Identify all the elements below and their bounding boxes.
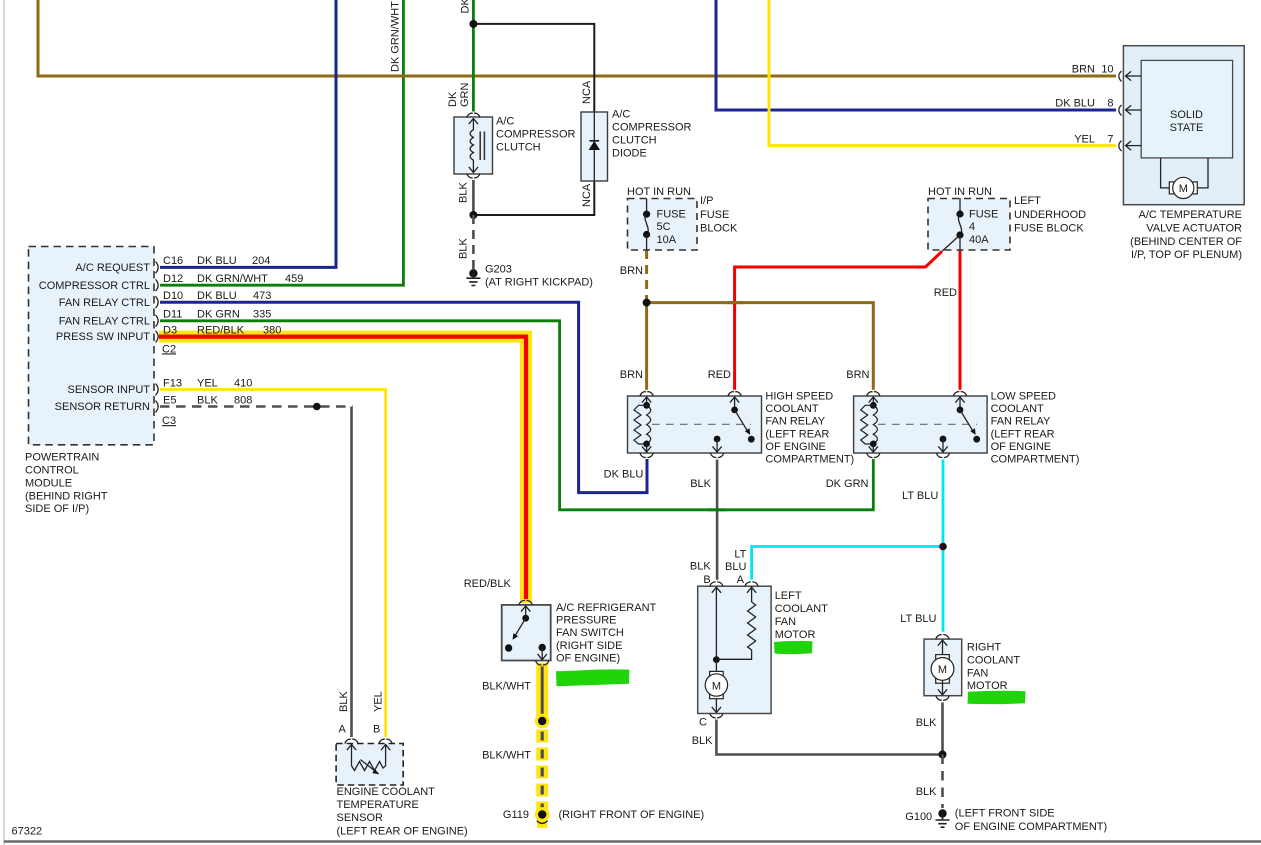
svg-text:HOT IN RUN: HOT IN RUN bbox=[627, 186, 691, 198]
wire RED: fuse 4 to low speed relay switch bbox=[959, 250, 962, 390]
svg-text:LT: LT bbox=[734, 549, 746, 561]
svg-text:CLUTCH: CLUTCH bbox=[496, 142, 541, 154]
svg-text:M: M bbox=[1179, 183, 1188, 195]
svg-text:SIDE OF I/P): SIDE OF I/P) bbox=[25, 503, 89, 515]
wire YEL 410: PCM F13 to ECT sensor pin B bbox=[160, 390, 386, 738]
svg-text:BLK: BLK bbox=[197, 394, 218, 406]
page frame bottom border bbox=[4, 840, 1261, 842]
high speed relay caption bbox=[765, 391, 854, 466]
svg-text:I/P, TOP OF PLENUM): I/P, TOP OF PLENUM) bbox=[1131, 249, 1242, 261]
left fan motor symbol bbox=[715, 660, 717, 673]
svg-text:OF ENGINE): OF ENGINE) bbox=[556, 652, 620, 664]
PCM pin D12 bbox=[156, 273, 304, 291]
svg-text:A/C: A/C bbox=[496, 116, 514, 128]
wire NCA: diode bottom jumper bbox=[473, 181, 594, 215]
highlighted wire BLK/WHT: pressure switch to splice (yellow band) bbox=[536, 663, 548, 721]
svg-text:NCA: NCA bbox=[581, 80, 593, 104]
svg-text:459: 459 bbox=[285, 273, 303, 285]
svg-text:I/P: I/P bbox=[700, 195, 713, 207]
svg-text:(LEFT REAR: (LEFT REAR bbox=[765, 428, 829, 440]
ground G119 highlighted dot bbox=[535, 807, 550, 822]
svg-text:FUSE: FUSE bbox=[657, 209, 686, 221]
I/P fuse block box bbox=[627, 186, 697, 250]
node: splice dot on BLK 808 bbox=[313, 403, 321, 411]
relay switch bbox=[734, 397, 736, 410]
wire DK GRN 335: PCM D11 to low speed relay coil bbox=[160, 321, 873, 510]
wire LT BLU: low speed relay switch down to right fan motor bbox=[942, 460, 945, 632]
node: LT BLU junction dot bbox=[939, 543, 947, 551]
svg-text:BRN: BRN bbox=[846, 369, 869, 381]
relay internal dashed line bbox=[878, 423, 977, 425]
svg-text:G203: G203 bbox=[485, 264, 512, 276]
clutch coil core bars bbox=[479, 132, 481, 161]
svg-text:B: B bbox=[703, 574, 710, 586]
svg-text:YEL: YEL bbox=[373, 691, 385, 712]
svg-text:NCA: NCA bbox=[581, 183, 593, 207]
svg-text:POWERTRAIN: POWERTRAIN bbox=[25, 452, 99, 464]
svg-text:(BEHIND RIGHT: (BEHIND RIGHT bbox=[25, 490, 108, 502]
A/C compressor clutch box bbox=[454, 113, 576, 178]
svg-text:67322: 67322 bbox=[12, 826, 43, 838]
svg-text:BLK: BLK bbox=[458, 182, 470, 203]
svg-text:COOLANT: COOLANT bbox=[967, 655, 1020, 667]
svg-text:SENSOR INPUT: SENSOR INPUT bbox=[67, 384, 150, 396]
PCM pin F13 bbox=[156, 377, 253, 395]
wire DK BLU 473: PCM D10 to high speed relay coil bbox=[160, 302, 647, 492]
svg-text:(RIGHT SIDE: (RIGHT SIDE bbox=[556, 640, 622, 652]
node: junction dot below clutch bbox=[469, 211, 477, 219]
svg-text:LOW SPEED: LOW SPEED bbox=[991, 391, 1056, 403]
svg-text:(BEHIND CENTER OF: (BEHIND CENTER OF bbox=[1130, 236, 1242, 248]
high speed coolant fan relay box bbox=[628, 392, 762, 458]
svg-text:D12: D12 bbox=[163, 273, 183, 285]
wire BLK/WHT solid core bbox=[541, 667, 544, 722]
svg-text:A/C TEMPERATURE: A/C TEMPERATURE bbox=[1139, 209, 1243, 221]
svg-text:RED: RED bbox=[934, 287, 957, 299]
svg-text:STATE: STATE bbox=[1170, 122, 1204, 134]
pressure switch box bbox=[502, 600, 551, 665]
svg-text:BLK: BLK bbox=[916, 786, 937, 798]
ground G100 symbol bbox=[938, 809, 946, 817]
svg-text:(LEFT FRONT SIDE: (LEFT FRONT SIDE bbox=[955, 808, 1055, 820]
relay switch bbox=[959, 397, 961, 410]
svg-text:SOLID: SOLID bbox=[1170, 109, 1203, 121]
page frame left border bbox=[3, 0, 5, 845]
svg-text:(LEFT REAR: (LEFT REAR bbox=[991, 428, 1055, 440]
svg-text:PRESSURE: PRESSURE bbox=[556, 615, 617, 627]
highlighted wire BLK/WHT dashed: splice to G119 bbox=[536, 730, 548, 813]
svg-text:4: 4 bbox=[969, 221, 975, 233]
PCM caption bbox=[25, 452, 108, 516]
svg-text:DK BLU: DK BLU bbox=[1055, 98, 1095, 110]
pin A internal resistor bbox=[751, 587, 753, 602]
svg-text:5C: 5C bbox=[657, 221, 671, 233]
wire DK BLU: vertical from top to actuator pin 8 bbox=[716, 0, 1116, 110]
svg-text:DK BLU: DK BLU bbox=[604, 469, 644, 481]
left underhood fuse block caption bbox=[1014, 195, 1086, 235]
svg-text:VALVE ACTUATOR: VALVE ACTUATOR bbox=[1146, 222, 1242, 234]
svg-text:CLUTCH: CLUTCH bbox=[612, 135, 657, 147]
svg-text:10: 10 bbox=[1101, 64, 1113, 76]
left fan motor caption bbox=[775, 590, 828, 641]
svg-text:LT BLU: LT BLU bbox=[900, 613, 936, 625]
A/C compressor clutch diode box bbox=[581, 109, 692, 182]
svg-text:A/C: A/C bbox=[612, 109, 630, 121]
svg-text:MODULE: MODULE bbox=[25, 477, 72, 489]
label DK GRN rotated above clutch bbox=[447, 83, 471, 108]
svg-text:FAN: FAN bbox=[967, 668, 988, 680]
svg-text:OF ENGINE COMPARTMENT): OF ENGINE COMPARTMENT) bbox=[955, 821, 1107, 833]
svg-text:808: 808 bbox=[234, 394, 252, 406]
relay coil bbox=[872, 397, 874, 406]
svg-text:BRN: BRN bbox=[1072, 64, 1095, 76]
node: BLK/WHT splice dot with highlight ring bbox=[535, 714, 550, 729]
wire BRN dashed: I/P fuse to splice bbox=[645, 250, 648, 303]
svg-text:SENSOR: SENSOR bbox=[337, 812, 384, 824]
wire BRN: battery feed to A/C temperature valve actuator pin 10 bbox=[38, 0, 1116, 76]
svg-text:F13: F13 bbox=[163, 377, 182, 389]
svg-text:LEFT: LEFT bbox=[775, 590, 802, 602]
svg-text:E5: E5 bbox=[163, 394, 176, 406]
svg-text:BLK: BLK bbox=[690, 561, 711, 573]
svg-text:RED/BLK: RED/BLK bbox=[464, 578, 512, 590]
svg-text:380: 380 bbox=[263, 324, 281, 336]
svg-text:COMPARTMENT): COMPARTMENT) bbox=[765, 454, 854, 466]
svg-text:CONTROL: CONTROL bbox=[25, 465, 79, 477]
svg-text:335: 335 bbox=[253, 309, 271, 321]
thermistor zigzag bbox=[352, 762, 386, 771]
fuse 5C 10A symbol bbox=[646, 199, 648, 215]
svg-text:DK BLU: DK BLU bbox=[197, 255, 237, 267]
relay internal dashed line bbox=[652, 423, 751, 425]
wire BLK: left fan motor pin C to ground run bbox=[716, 720, 942, 755]
svg-text:7: 7 bbox=[1107, 134, 1113, 146]
PCM pin D3 bbox=[156, 324, 282, 342]
svg-text:D10: D10 bbox=[163, 290, 183, 302]
svg-text:D11: D11 bbox=[163, 309, 182, 321]
svg-text:OF ENGINE: OF ENGINE bbox=[991, 441, 1052, 453]
svg-text:COOLANT: COOLANT bbox=[991, 403, 1044, 415]
svg-text:BLK/WHT: BLK/WHT bbox=[482, 681, 531, 693]
wire RED/BLK 380 red core bbox=[159, 337, 526, 599]
svg-text:FUSE: FUSE bbox=[700, 209, 729, 221]
wire BLK dashed to G203 bbox=[472, 215, 475, 269]
svg-text:FAN RELAY CTRL: FAN RELAY CTRL bbox=[59, 315, 150, 327]
svg-text:BRN: BRN bbox=[620, 369, 643, 381]
low speed relay caption bbox=[991, 391, 1080, 466]
PCM pin E5 bbox=[156, 394, 253, 412]
svg-text:10A: 10A bbox=[657, 234, 677, 246]
svg-text:COOLANT: COOLANT bbox=[765, 403, 818, 415]
svg-text:DK: DK bbox=[447, 91, 459, 107]
svg-text:DK GRN: DK GRN bbox=[197, 309, 240, 321]
wire BLK dashed to G100 bbox=[941, 755, 944, 809]
svg-text:COMPARTMENT): COMPARTMENT) bbox=[991, 454, 1080, 466]
wire DK GRN/WHT 459: vertical from top to PCM D12 bbox=[160, 0, 403, 285]
actuator pin 7 bbox=[1119, 141, 1122, 152]
wire crossing overdraws bbox=[396, 75, 412, 78]
svg-text:BLK: BLK bbox=[458, 238, 470, 259]
ECT sensor box bbox=[336, 739, 403, 785]
I/P fuse block caption bbox=[700, 195, 738, 235]
svg-text:A/C REQUEST: A/C REQUEST bbox=[75, 262, 150, 274]
diode symbol bbox=[590, 142, 600, 150]
svg-text:BLU: BLU bbox=[725, 561, 746, 573]
svg-text:HOT IN RUN: HOT IN RUN bbox=[928, 186, 992, 198]
svg-text:DIODE: DIODE bbox=[612, 148, 647, 160]
actuator pin 8 bbox=[1119, 105, 1122, 116]
svg-text:RIGHT: RIGHT bbox=[967, 642, 1002, 654]
wire DK BLU 204: PCM C16 up to top of page bbox=[160, 0, 336, 267]
svg-text:DK GRN: DK GRN bbox=[826, 478, 869, 490]
svg-text:MOTOR: MOTOR bbox=[967, 680, 1008, 692]
svg-text:COMPRESSOR: COMPRESSOR bbox=[496, 129, 576, 141]
svg-text:TEMPERATURE: TEMPERATURE bbox=[337, 799, 419, 811]
svg-text:410: 410 bbox=[234, 377, 252, 389]
svg-text:ENGINE COOLANT: ENGINE COOLANT bbox=[337, 786, 436, 798]
ground G119 symbol tail bbox=[537, 821, 547, 829]
svg-text:PRESS SW INPUT: PRESS SW INPUT bbox=[56, 331, 150, 343]
right fan motor caption bbox=[967, 642, 1020, 693]
actuator caption bbox=[1130, 209, 1242, 261]
svg-text:BLK: BLK bbox=[690, 478, 711, 490]
svg-text:C: C bbox=[699, 717, 707, 729]
wire NCA: black jumper from DK GRN node to clutch diode top bbox=[473, 24, 594, 112]
svg-text:OF ENGINE: OF ENGINE bbox=[765, 441, 826, 453]
svg-text:D3: D3 bbox=[163, 324, 177, 336]
svg-text:FAN RELAY: FAN RELAY bbox=[765, 416, 825, 428]
left coolant fan motor box bbox=[698, 582, 771, 718]
wire RED: fuse 4 to high speed relay switch bbox=[735, 252, 942, 390]
relay coil bbox=[646, 397, 648, 406]
svg-text:HIGH SPEED: HIGH SPEED bbox=[765, 391, 833, 403]
svg-text:RED: RED bbox=[708, 369, 731, 381]
fuse 4 40A symbol bbox=[959, 198, 961, 214]
svg-text:C16: C16 bbox=[163, 255, 183, 267]
svg-text:COOLANT: COOLANT bbox=[775, 603, 828, 615]
svg-text:473: 473 bbox=[253, 290, 271, 302]
svg-text:BLOCK: BLOCK bbox=[700, 223, 738, 235]
svg-text:FUSE BLOCK: FUSE BLOCK bbox=[1014, 223, 1084, 235]
ECT sensor caption bbox=[337, 786, 468, 837]
svg-text:YEL: YEL bbox=[197, 377, 218, 389]
svg-text:RED/BLK: RED/BLK bbox=[197, 324, 245, 336]
svg-text:M: M bbox=[938, 664, 947, 676]
svg-text:FAN RELAY CTRL: FAN RELAY CTRL bbox=[59, 297, 150, 309]
svg-text:FAN RELAY: FAN RELAY bbox=[991, 416, 1051, 428]
actuator outer box bbox=[1119, 46, 1244, 205]
svg-text:40A: 40A bbox=[969, 234, 989, 246]
svg-text:FUSE: FUSE bbox=[969, 209, 998, 221]
svg-text:M: M bbox=[712, 680, 721, 692]
svg-text:YEL: YEL bbox=[1074, 134, 1095, 146]
pin B internal bbox=[715, 587, 717, 660]
wire DK GRN: from top to A/C compressor clutch bbox=[472, 0, 475, 112]
actuator motor M bbox=[1161, 158, 1208, 188]
svg-text:8: 8 bbox=[1107, 98, 1113, 110]
highlight marker green by left fan motor bbox=[774, 641, 813, 654]
left underhood fuse block box bbox=[928, 186, 1010, 252]
PCM pin D11 bbox=[156, 309, 272, 327]
svg-text:G100: G100 bbox=[905, 811, 932, 823]
svg-text:BLK: BLK bbox=[338, 691, 350, 712]
node: junction dot on DK GRN wire bbox=[469, 20, 477, 28]
svg-text:204: 204 bbox=[252, 255, 270, 267]
svg-text:DK BLU: DK BLU bbox=[197, 290, 237, 302]
svg-text:COMPRESSOR CTRL: COMPRESSOR CTRL bbox=[39, 280, 150, 292]
svg-text:(AT RIGHT KICKPAD): (AT RIGHT KICKPAD) bbox=[485, 277, 593, 289]
wire BLK: high speed relay to left fan motor pin B bbox=[716, 460, 719, 580]
node: BRN splice dot bbox=[643, 299, 651, 307]
svg-text:LEFT: LEFT bbox=[1014, 195, 1041, 207]
wire LT BLU: branch to left fan motor pin A bbox=[752, 547, 943, 580]
svg-text:MOTOR: MOTOR bbox=[775, 629, 816, 641]
svg-text:A: A bbox=[737, 574, 745, 586]
svg-text:BLK: BLK bbox=[916, 717, 937, 729]
svg-text:(LEFT REAR OF ENGINE): (LEFT REAR OF ENGINE) bbox=[337, 825, 468, 837]
svg-text:B: B bbox=[373, 724, 380, 736]
svg-text:A: A bbox=[338, 724, 346, 736]
svg-text:DK GRN/WHT: DK GRN/WHT bbox=[197, 273, 268, 285]
svg-text:C2: C2 bbox=[162, 343, 176, 355]
powertrain control module box bbox=[29, 247, 155, 445]
ground G203 symbol bbox=[469, 269, 477, 277]
svg-text:SENSOR RETURN: SENSOR RETURN bbox=[55, 401, 150, 413]
svg-text:UNDERHOOD: UNDERHOOD bbox=[1014, 209, 1086, 221]
wire BLK: right fan motor to ground junction bbox=[941, 703, 944, 755]
highlight marker green by pressure switch bbox=[556, 669, 630, 686]
svg-text:LT BLU: LT BLU bbox=[902, 490, 938, 502]
wire YEL: vertical from top to actuator pin 7 bbox=[769, 0, 1116, 146]
svg-text:FAN SWITCH: FAN SWITCH bbox=[556, 627, 624, 639]
PCM pin C16 bbox=[156, 255, 271, 273]
wire BLK: clutch to ground splice bbox=[472, 180, 475, 215]
wire BRN: splice to both coolant fan relay coils bbox=[647, 303, 874, 390]
svg-text:(RIGHT FRONT OF ENGINE): (RIGHT FRONT OF ENGINE) bbox=[559, 809, 705, 821]
wire BLK 808: PCM E5 dashed to corner bbox=[160, 405, 353, 408]
svg-text:BRN: BRN bbox=[620, 265, 643, 277]
PCM pin D10 bbox=[156, 290, 272, 308]
svg-text:BLK/WHT: BLK/WHT bbox=[482, 750, 531, 762]
svg-text:GRN: GRN bbox=[459, 83, 471, 108]
highlighted wire RED/BLK 380: PCM D3 to pressure switch (yellow highlighter band) bbox=[159, 337, 526, 603]
svg-text:COMPRESSOR: COMPRESSOR bbox=[612, 122, 692, 134]
svg-text:C3: C3 bbox=[162, 415, 176, 427]
svg-text:DK GRN/WHT: DK GRN/WHT bbox=[390, 1, 402, 72]
right coolant fan motor box bbox=[924, 635, 962, 701]
wire BLK: solid vertical down to ECT sensor pin A bbox=[350, 407, 353, 738]
svg-text:G119: G119 bbox=[503, 809, 529, 821]
highlight marker green by right fan motor bbox=[968, 691, 1026, 704]
svg-text:FAN: FAN bbox=[775, 616, 796, 628]
actuator pin 10 bbox=[1119, 71, 1122, 82]
low speed coolant fan relay box bbox=[854, 392, 988, 458]
svg-text:DK GRN: DK GRN bbox=[460, 0, 472, 14]
node: BLK ground junction dot bbox=[939, 751, 947, 759]
svg-text:BLK: BLK bbox=[692, 735, 713, 747]
pressure switch caption bbox=[556, 602, 657, 664]
svg-text:A/C REFRIGERANT: A/C REFRIGERANT bbox=[556, 602, 657, 614]
